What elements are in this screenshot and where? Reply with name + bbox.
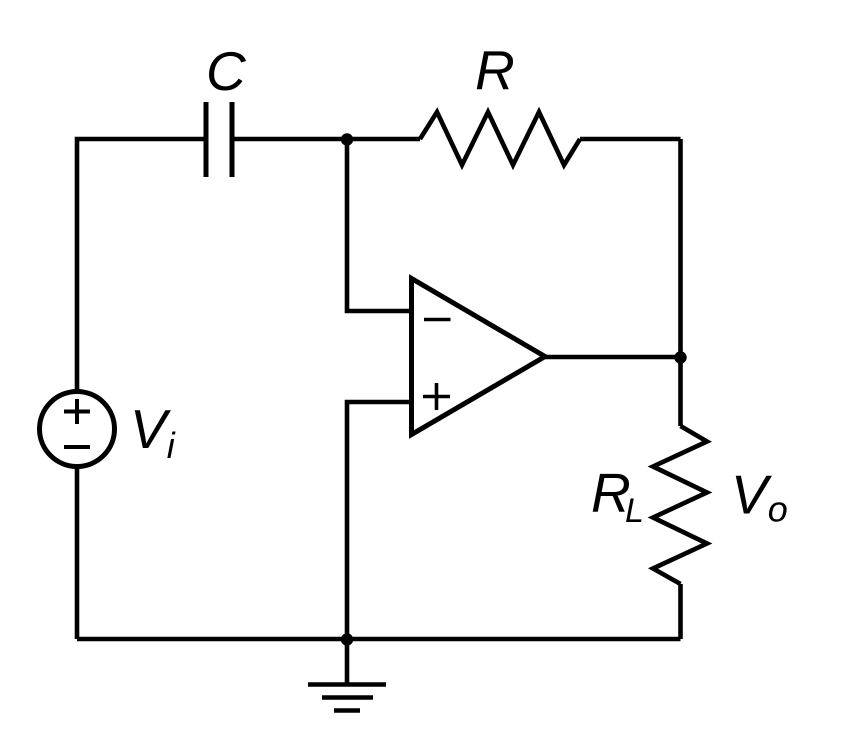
svg-text:Vo: Vo [731, 464, 788, 530]
node: output node dot [674, 351, 686, 363]
svg-text:L: L [625, 492, 644, 530]
wire: non-inverting input wire [347, 402, 409, 639]
svg-text:C: C [206, 40, 247, 102]
voltage source Vi circle [40, 392, 115, 467]
op-amp U1 [412, 279, 546, 435]
voltage source plus sign [64, 399, 90, 424]
wire: bottom rail [77, 637, 681, 642]
op-amp plus sign [423, 383, 450, 410]
wire: right vertical from R down to RL top [678, 139, 683, 426]
wire: resistor R to output branch [580, 137, 681, 142]
op-amp minus sign [424, 318, 451, 322]
node: inverting input node dot [341, 133, 353, 145]
ground [308, 639, 386, 711]
capacitor C [206, 102, 232, 177]
wire: RL bottom to rail [678, 584, 683, 639]
wire: source bottom to rail [75, 467, 80, 640]
wire: capacitor to resistor R (through node) [235, 137, 421, 142]
svg-text:R: R [475, 39, 515, 101]
resistor RL [653, 426, 707, 584]
wire: left vertical + top horizontal to capacitor [77, 139, 204, 391]
node: ground node dot [341, 633, 353, 645]
voltage source minus sign [64, 445, 90, 449]
wire: inverting input wire [347, 139, 409, 311]
svg-text:Vi: Vi [130, 398, 176, 466]
resistor R [420, 112, 580, 165]
wire: op-amp output [545, 355, 681, 360]
